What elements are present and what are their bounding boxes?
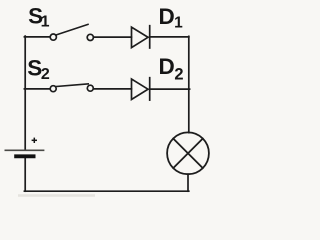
svg-text:D: D bbox=[159, 54, 175, 79]
wire row2 right segment to right rail bbox=[150, 88, 190, 90]
svg-text:2: 2 bbox=[174, 66, 183, 84]
wire row2 middle segment bbox=[93, 88, 131, 90]
wire row2 left segment bbox=[24, 88, 50, 90]
scan shadow under bottom-left rail bbox=[18, 194, 95, 197]
switch S1 right contact bbox=[87, 34, 93, 40]
switch S2 left contact bbox=[50, 86, 56, 92]
switch S2 lever bbox=[56, 84, 88, 87]
lamp L1 cross line 2 bbox=[173, 139, 202, 168]
wire right vertical rail bbox=[188, 36, 190, 132]
wire bottom rail bbox=[24, 190, 188, 192]
svg-text:2: 2 bbox=[41, 66, 50, 83]
svg-text:1: 1 bbox=[41, 14, 50, 31]
wire top rail row1 left segment bbox=[24, 36, 50, 38]
battery B1 negative plate (short thick) bbox=[14, 154, 35, 158]
switch S1 lever bbox=[56, 24, 88, 35]
svg-text:D: D bbox=[159, 4, 175, 29]
wire row1 middle segment bbox=[94, 36, 132, 38]
svg-text:1: 1 bbox=[174, 14, 183, 31]
diode D2 triangle bbox=[132, 79, 149, 100]
diode D2 cathode bar bbox=[149, 78, 151, 100]
wire left vertical (bottom section, battery - to bottom rail) bbox=[24, 158, 26, 191]
wire lamp bottom to bottom rail bbox=[187, 174, 189, 191]
wire row1 right segment to right rail bbox=[150, 36, 189, 38]
switch S2 right contact bbox=[87, 85, 93, 91]
battery + polarity sign bbox=[32, 138, 37, 143]
background paper bbox=[0, 0, 219, 210]
battery B1 positive plate (long thin) bbox=[5, 149, 45, 151]
lamp L1 circle bbox=[167, 132, 209, 174]
wire left vertical (top section, battery + terminal) bbox=[24, 36, 26, 149]
diode D1 cathode bar bbox=[149, 26, 151, 48]
switch S1 left contact bbox=[50, 34, 56, 40]
lamp L1 cross line 1 bbox=[173, 139, 202, 168]
diode D1 triangle bbox=[132, 27, 149, 47]
